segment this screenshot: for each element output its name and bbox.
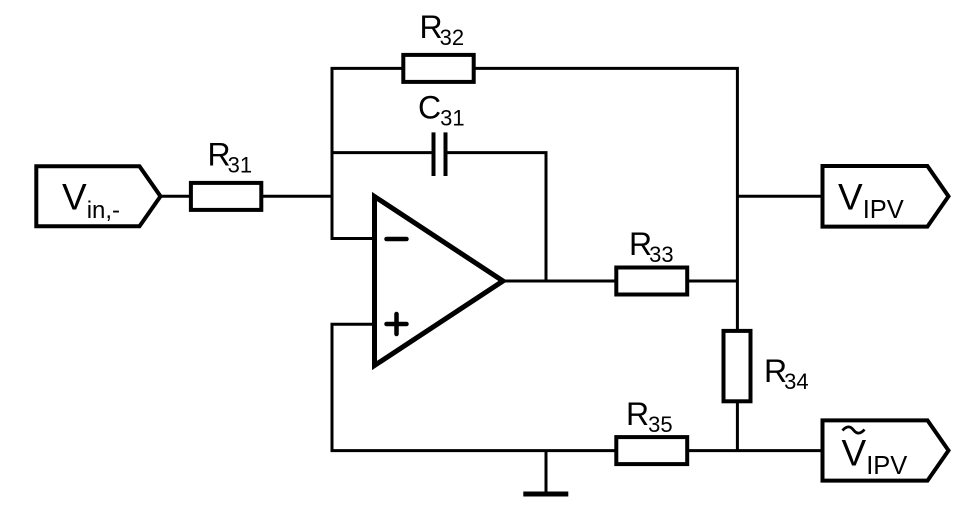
wire non-inverting input, left vertical, bottom wire to R35 bbox=[332, 324, 616, 450]
resistor R31 bbox=[191, 137, 261, 210]
svg-text:VIPV: VIPV bbox=[842, 433, 908, 481]
resistor R34 bbox=[724, 331, 809, 401]
svg-text:R33: R33 bbox=[629, 226, 674, 267]
svg-text:VIPV: VIPV bbox=[838, 177, 904, 225]
port tilde-V_IPV bbox=[823, 420, 949, 480]
wire R31 to inverting node bbox=[261, 195, 332, 198]
wire R34 bottom stub bbox=[736, 401, 739, 450]
wire R35 to port tilde-V_IPV bbox=[687, 449, 822, 452]
op-amp U1 bbox=[375, 197, 504, 366]
wire R32 right lead and right net vertical down to R34 bbox=[474, 68, 738, 331]
svg-text:R35: R35 bbox=[626, 396, 673, 437]
wire port Vin,- to R31 bbox=[161, 195, 191, 198]
port V_IPV bbox=[823, 166, 949, 227]
wire op-amp output to R33 bbox=[503, 280, 616, 283]
svg-text:C31: C31 bbox=[418, 90, 465, 131]
svg-text:R31: R31 bbox=[208, 137, 253, 178]
wire inverting node to C31 left bbox=[332, 151, 432, 154]
op-amp minus sign bbox=[387, 237, 407, 242]
wire R32 left lead, inverting node vertical, inverting input bbox=[332, 68, 403, 238]
wire C31 right lead down to op-amp output bbox=[448, 153, 547, 281]
svg-text:R32: R32 bbox=[420, 9, 465, 50]
wire R33 to right net bbox=[687, 280, 737, 283]
svg-text:Vin,-: Vin,- bbox=[62, 177, 120, 225]
capacitor C31 bbox=[418, 90, 465, 177]
wire right net to port V_IPV bbox=[737, 195, 822, 198]
port Vin,- bbox=[36, 166, 160, 226]
op-amp plus sign bbox=[387, 314, 407, 334]
resistor R32 bbox=[403, 9, 473, 82]
ground bbox=[523, 451, 568, 494]
svg-text:R34: R34 bbox=[764, 353, 809, 394]
resistor R33 bbox=[616, 226, 687, 295]
resistor R35 bbox=[616, 396, 687, 464]
